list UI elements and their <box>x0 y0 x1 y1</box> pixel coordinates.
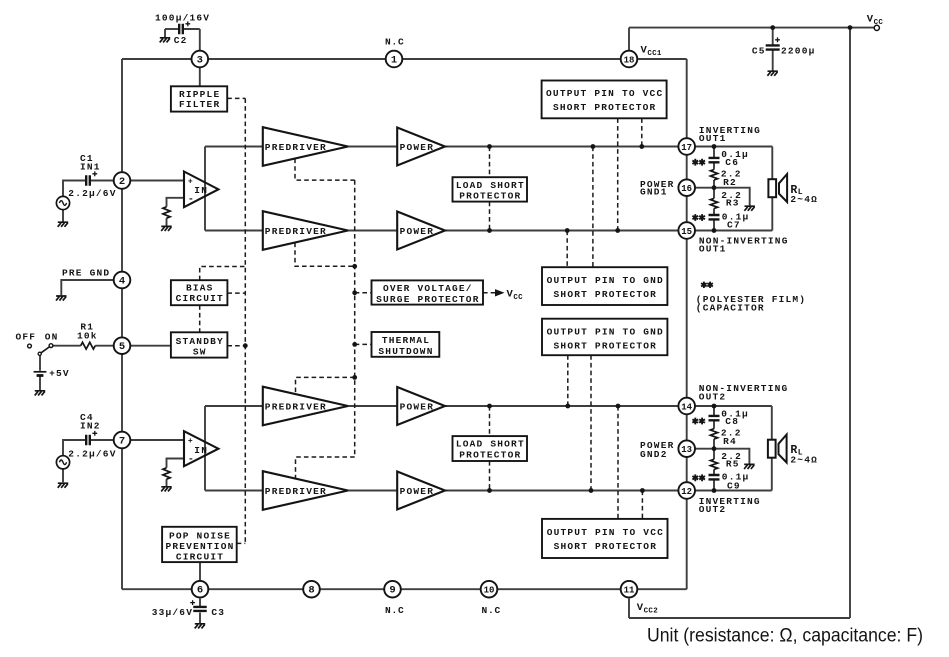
resistor R2 <box>710 170 717 181</box>
VCC supply rail <box>629 27 875 29</box>
pin 5 <box>114 337 131 354</box>
svg-text:R4: R4 <box>723 436 737 447</box>
svg-text:18: 18 <box>624 55 635 65</box>
ground at feedback resistor IN2 <box>161 487 172 492</box>
wire pin7 to IN2 amp input <box>131 439 184 441</box>
resistor R1 <box>81 342 96 349</box>
svg-text:PREVENTION: PREVENTION <box>165 541 234 552</box>
svg-text:IN1: IN1 <box>80 161 101 172</box>
ground at pin13 stub <box>744 464 755 469</box>
wire to predriver 1 <box>205 146 263 148</box>
speaker rail OUT2 <box>771 406 773 491</box>
wire switch to R1 <box>53 345 81 347</box>
switch OFF terminal <box>28 344 32 348</box>
standby switch block <box>171 332 228 357</box>
svg-text:SHORT PROTECTOR: SHORT PROTECTOR <box>554 541 658 552</box>
svg-text:C5: C5 <box>752 46 766 57</box>
svg-text:-: - <box>188 195 194 206</box>
wire R1 to pin5 <box>95 345 113 347</box>
svg-text:PREDRIVER: PREDRIVER <box>265 486 327 497</box>
wire C5 stub <box>772 28 774 45</box>
wire to predriver 2 <box>205 230 263 232</box>
svg-text:PREDRIVER: PREDRIVER <box>265 142 327 153</box>
svg-text:2200μ: 2200μ <box>781 46 816 57</box>
svg-text:R2: R2 <box>723 177 737 188</box>
svg-text:OUTPUT PIN TO GND: OUTPUT PIN TO GND <box>547 275 664 286</box>
svg-text:C8: C8 <box>725 416 739 427</box>
junction dots protection bus <box>352 264 357 269</box>
pin 9 <box>384 581 401 598</box>
dashed load short protector 1 links <box>489 147 491 178</box>
dashed bias to standby link <box>199 305 201 332</box>
wire pin2 to C1 <box>91 180 113 182</box>
bottom VCC2 return wire <box>629 617 850 619</box>
polyester mark C6 <box>692 159 705 166</box>
wire power2 to pin15 <box>445 230 678 232</box>
dashed thermal shutdown tap <box>355 343 372 345</box>
predriver amp 1 <box>263 127 348 166</box>
junction dot right rail on VCC rail <box>848 25 853 30</box>
svg-text:+: + <box>188 437 193 446</box>
C6/R2/R3/C7 chain wire <box>713 147 715 158</box>
ground at C5 <box>767 71 778 76</box>
dashed over voltage protector tap <box>355 292 372 294</box>
svg-text:LOAD SHORT: LOAD SHORT <box>456 439 525 450</box>
wire C4 to AC source IN2 <box>63 440 86 456</box>
svg-text:N.C: N.C <box>385 605 405 616</box>
polyester mark C9 <box>692 474 705 481</box>
svg-text:12: 12 <box>681 487 692 497</box>
svg-text:SHUTDOWN: SHUTDOWN <box>378 346 433 357</box>
pin 10 <box>481 581 498 598</box>
svg-text:14: 14 <box>681 402 692 412</box>
svg-text:OUT2: OUT2 <box>699 391 727 402</box>
svg-text:2.2μ/6V: 2.2μ/6V <box>68 449 116 460</box>
battery +5V <box>34 371 47 373</box>
wire pop noise circuit to pin6 <box>199 562 201 581</box>
power amp 3 <box>397 387 445 425</box>
svg-text:LOAD SHORT: LOAD SHORT <box>456 180 525 191</box>
wire AC source IN1 to ground <box>62 210 64 222</box>
dashed load short protector 2 links <box>489 406 491 436</box>
svg-text:SW: SW <box>193 347 207 358</box>
svg-text:POWER: POWER <box>400 401 435 412</box>
wire to predriver 3 <box>205 405 263 407</box>
svg-text:10k: 10k <box>77 331 98 342</box>
wire C1 to AC source IN1 <box>63 181 86 197</box>
output pin to vcc short protector block 1 <box>542 81 667 119</box>
capacitor C6 <box>709 158 720 162</box>
svg-text:(CAPACITOR: (CAPACITOR <box>696 303 765 314</box>
power amp 2 <box>397 212 445 250</box>
svg-text:10: 10 <box>484 586 495 596</box>
svg-text:SHORT PROTECTOR: SHORT PROTECTOR <box>553 102 657 113</box>
svg-text:+5V: +5V <box>49 368 70 379</box>
dashed over voltage to VCC arrow <box>483 292 496 294</box>
svg-text:OUTPUT PIN TO VCC: OUTPUT PIN TO VCC <box>547 527 664 538</box>
capacitor C2 <box>179 24 183 35</box>
pop noise prevention circuit block <box>162 527 237 563</box>
svg-text:POWER: POWER <box>400 226 435 237</box>
switch ON terminal <box>49 344 53 348</box>
svg-text:4: 4 <box>119 275 125 287</box>
svg-text:SURGE PROTECTOR: SURGE PROTECTOR <box>376 294 480 305</box>
svg-text:33μ/6V: 33μ/6V <box>152 607 193 618</box>
wire predriver1 to power1 <box>348 146 397 148</box>
resistor R3 <box>710 198 717 208</box>
svg-text:2: 2 <box>119 176 125 188</box>
predriver amp 3 <box>263 387 348 426</box>
wire IN2 amp output bus <box>204 406 206 491</box>
AC source IN1 <box>56 196 69 209</box>
dashed output-to-vcc protector 2 links <box>617 406 619 519</box>
svg-text:C7: C7 <box>727 220 741 231</box>
ground at pin16 stub <box>744 206 755 211</box>
svg-text:CIRCUIT: CIRCUIT <box>176 293 224 304</box>
svg-text:OUTPUT PIN TO GND: OUTPUT PIN TO GND <box>547 326 664 337</box>
wire pin7 to C4 <box>91 439 113 441</box>
svg-text:R5: R5 <box>726 459 740 470</box>
ground at pin4 <box>56 296 67 301</box>
wire pin4 to PRE GND ground <box>61 280 113 295</box>
svg-text:OUTPUT PIN TO VCC: OUTPUT PIN TO VCC <box>546 88 663 99</box>
svg-text:IN2: IN2 <box>80 421 101 432</box>
svg-text:-: - <box>188 454 194 465</box>
wire pin3 to ripple filter <box>199 68 201 87</box>
svg-text:PRE GND: PRE GND <box>62 268 110 279</box>
wire battery to ground <box>39 376 41 390</box>
dashed predriver3 tap <box>296 377 355 394</box>
wire pin6 to C3 <box>199 599 201 607</box>
label polyester film note <box>701 282 713 288</box>
bias circuit block <box>171 280 228 305</box>
wire battery to switch pivot <box>39 355 41 371</box>
capacitor C8 <box>709 416 720 420</box>
dashed predriver1 tap <box>295 159 355 181</box>
svg-text:2.2μ/6V: 2.2μ/6V <box>68 188 116 199</box>
svg-text:OVER VOLTAGE/: OVER VOLTAGE/ <box>383 283 473 294</box>
over voltage surge protector block <box>372 280 484 304</box>
svg-text:GND2: GND2 <box>640 449 668 460</box>
svg-text:7: 7 <box>119 435 125 447</box>
svg-text:PROTECTOR: PROTECTOR <box>459 449 521 460</box>
wire pin18 to VCC rail <box>628 28 630 51</box>
svg-text:16: 16 <box>681 184 692 194</box>
dashed protection bus vertical <box>354 180 356 457</box>
resistor R5 <box>710 459 717 469</box>
pin 14 <box>678 398 695 415</box>
svg-text:Unit (resistance: Ω, capacitan: Unit (resistance: Ω, capacitance: F) <box>647 626 923 647</box>
wire pin3 to C2 <box>199 29 201 50</box>
junction dots row OUT2 non-inverting <box>487 404 492 409</box>
wire pin13 to ground stub <box>695 449 749 464</box>
dashed output-to-gnd protector 1 links <box>592 147 594 268</box>
wire predriver4 to power4 <box>348 490 397 492</box>
dashed predriver4 tap <box>296 457 355 479</box>
polyester mark C7 <box>692 214 705 221</box>
svg-text:C3: C3 <box>211 607 225 618</box>
svg-text:13: 13 <box>681 445 692 455</box>
pin 6 <box>192 581 209 598</box>
right-side VCC vertical rail <box>849 28 851 618</box>
svg-text:OUT2: OUT2 <box>699 504 727 515</box>
svg-text:9: 9 <box>389 585 395 597</box>
speaker RL OUT1 <box>768 174 787 202</box>
junction dot pin13 node <box>712 446 717 451</box>
svg-text:OUT1: OUT1 <box>699 243 727 254</box>
wire pin5 to standby sw block <box>131 345 171 347</box>
wire pin11 down to return wire <box>628 599 630 618</box>
pin 15 <box>678 222 695 239</box>
wire pin14 to output network <box>695 405 772 407</box>
wire pin12 to output network <box>695 490 772 492</box>
resistor R4 <box>710 429 717 439</box>
svg-text:ON: ON <box>45 332 59 343</box>
load short protector block 1 <box>453 177 528 201</box>
IC package outline <box>122 58 687 60</box>
predriver amp 4 <box>263 471 348 510</box>
svg-text:5: 5 <box>119 341 125 353</box>
wire predriver2 to power2 <box>348 230 397 232</box>
wire predriver3 to power3 <box>348 405 397 407</box>
svg-text:IN: IN <box>194 185 208 196</box>
output pin to gnd short protector block 2 <box>542 319 667 356</box>
pin 7 <box>114 432 131 449</box>
ground at IN1 source <box>58 222 68 227</box>
svg-text:3: 3 <box>197 54 203 66</box>
capacitor C3 <box>193 607 207 611</box>
svg-text:CIRCUIT: CIRCUIT <box>176 552 224 563</box>
svg-text:1: 1 <box>391 54 397 66</box>
dashed predriver2 tap <box>295 243 355 267</box>
junction dots row OUT2 inverting <box>487 488 492 493</box>
svg-text:100μ/16V: 100μ/16V <box>155 13 210 24</box>
wire IN2 inverting input to feedback resistor <box>167 459 185 468</box>
junction dots row OUT1 non-inverting <box>487 228 492 233</box>
dashed output-to-gnd protector 2 links <box>567 355 569 406</box>
pin 3 <box>192 51 209 68</box>
svg-text:8: 8 <box>308 585 314 597</box>
C8/R4/R5/C9 chain wire <box>713 406 715 416</box>
wire pin2 to IN amp input <box>131 180 184 182</box>
predriver amp 2 <box>263 211 348 250</box>
pin 17 <box>678 138 695 155</box>
speaker RL OUT2 <box>768 435 787 463</box>
wire C3 to ground <box>199 613 201 624</box>
svg-text:GND1: GND1 <box>640 187 668 198</box>
svg-text:C9: C9 <box>727 481 741 492</box>
junction dots row OUT1 inverting <box>487 144 492 149</box>
pin 12 <box>678 482 695 499</box>
svg-text:11: 11 <box>624 586 635 596</box>
VCC terminal <box>874 25 879 30</box>
junction dot C5 tap on rail <box>770 25 775 30</box>
dashed control bus vertical <box>244 98 246 543</box>
feedback resistor IN1 <box>163 207 170 218</box>
ground at C3 <box>195 624 206 629</box>
svg-text:6: 6 <box>197 585 203 597</box>
ground at feedback resistor IN1 <box>161 226 172 231</box>
feedback resistor IN2 <box>163 468 170 479</box>
wire power4 to pin12 <box>445 490 678 492</box>
svg-text:POWER: POWER <box>400 142 435 153</box>
speaker rail OUT1 <box>771 147 773 231</box>
svg-text:PREDRIVER: PREDRIVER <box>265 226 327 237</box>
svg-text:SHORT PROTECTOR: SHORT PROTECTOR <box>554 340 658 351</box>
capacitor C4 <box>86 435 90 446</box>
svg-text:POWER: POWER <box>400 486 435 497</box>
wire IN1 inverting input to feedback resistor <box>167 198 185 207</box>
capacitor C1 <box>86 175 90 186</box>
svg-text:2~4Ω: 2~4Ω <box>790 194 818 205</box>
op-amp IN1 <box>184 172 218 208</box>
wire pin16 to ground stub <box>695 188 749 206</box>
svg-text:C6: C6 <box>725 157 739 168</box>
wire feedback resistor 2 to ground <box>166 479 168 486</box>
wire to predriver 4 <box>205 490 263 492</box>
dashed bias circuit right tap <box>227 292 245 294</box>
capacitor C7 <box>709 215 720 219</box>
junction dot standby dashed tap <box>243 343 248 348</box>
wire power3 to pin14 <box>445 405 678 407</box>
load short protector block 2 <box>453 436 528 461</box>
wire pin17 to output network <box>695 146 772 148</box>
svg-text:R3: R3 <box>726 198 740 209</box>
capacitor C9 <box>709 475 720 479</box>
output pin to vcc short protector block 2 <box>542 519 668 558</box>
power amp 4 <box>397 472 445 510</box>
wire power1 to pin17 <box>445 146 678 148</box>
svg-text:N.C: N.C <box>482 605 502 616</box>
svg-text:C2: C2 <box>174 35 188 46</box>
svg-text:PROTECTOR: PROTECTOR <box>459 190 521 201</box>
op-amp IN2 <box>184 431 218 466</box>
svg-text:+: + <box>188 178 193 187</box>
ground at C2 <box>160 38 171 43</box>
thermal shutdown block <box>372 332 440 357</box>
svg-text:OFF: OFF <box>16 332 37 343</box>
ground at IN2 source <box>58 483 68 488</box>
switch lever <box>40 347 50 354</box>
svg-text:POP NOISE: POP NOISE <box>169 530 231 541</box>
wire C2 to ground <box>164 29 166 37</box>
output pin to gnd short protector block 1 <box>542 267 667 305</box>
pin 13 <box>678 440 695 457</box>
wire IN1 amp output bus <box>204 147 206 231</box>
wire pin15 to output network <box>695 230 772 232</box>
svg-text:17: 17 <box>681 143 692 153</box>
pin 16 <box>678 179 695 196</box>
wire AC source IN2 to ground <box>62 469 64 482</box>
svg-text:THERMAL: THERMAL <box>382 335 430 346</box>
polyester mark C8 <box>692 418 705 425</box>
dashed pop noise tap <box>237 542 246 544</box>
dashed output-to-vcc protector 1 links <box>641 118 643 146</box>
svg-text:OUT1: OUT1 <box>699 133 727 144</box>
AC source IN2 <box>56 456 69 469</box>
pin 1 <box>386 51 403 68</box>
ground at battery <box>35 391 46 396</box>
wire feedback resistor to ground <box>166 218 168 226</box>
dashed bias circuit top tap <box>200 267 246 281</box>
power amp 1 <box>397 128 445 166</box>
capacitor C5 <box>766 45 780 49</box>
ripple filter block <box>171 86 227 111</box>
pin 8 <box>303 581 320 598</box>
pin 18 <box>621 51 638 68</box>
dashed ripple filter tap <box>227 97 245 99</box>
wire C2 top link <box>165 28 179 30</box>
junction dot pin16 node <box>712 185 717 190</box>
pin 11 <box>621 581 638 598</box>
svg-text:SHORT PROTECTOR: SHORT PROTECTOR <box>554 289 658 300</box>
svg-text:IN: IN <box>194 445 208 456</box>
svg-text:PREDRIVER: PREDRIVER <box>265 401 327 412</box>
dashed standby sw tap <box>227 345 245 347</box>
pin 2 <box>114 172 131 189</box>
svg-text:15: 15 <box>681 227 692 237</box>
svg-text:FILTER: FILTER <box>179 99 220 110</box>
pin 4 <box>114 272 131 289</box>
svg-text:N.C: N.C <box>385 37 405 48</box>
svg-text:2~4Ω: 2~4Ω <box>790 454 818 465</box>
